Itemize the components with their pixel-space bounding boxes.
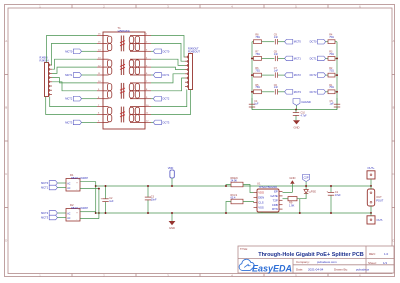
wire top rail xyxy=(96,185,371,187)
svg-text:AC: AC xyxy=(67,217,71,220)
wire D1 plus xyxy=(80,182,96,213)
resistor R4 75R xyxy=(326,41,328,43)
svg-text:AC: AC xyxy=(67,187,71,190)
bridge rectifier D2 DB107 xyxy=(66,209,80,222)
junction xyxy=(251,91,253,93)
svg-text:-: - xyxy=(76,219,77,222)
bridge rectifier D1 DB107 xyxy=(66,179,80,192)
U1 pin EP xyxy=(279,191,283,193)
wire T1 pin10 to J2 pin7 xyxy=(151,90,187,107)
svg-text:MCT0: MCT0 xyxy=(65,49,73,53)
junction xyxy=(171,212,173,214)
capacitor C1 47uF xyxy=(330,186,332,192)
junction xyxy=(330,212,332,214)
wire C to flag xyxy=(278,41,285,43)
net flag MCT0 xyxy=(73,49,81,54)
svg-text:GND: GND xyxy=(294,125,300,129)
net flag MCT3 xyxy=(73,120,81,125)
wire T1 center tap to MCT0 xyxy=(82,50,98,52)
wire J1 pin4 to T1 pin 10 xyxy=(52,78,97,83)
wire POUT bottom xyxy=(370,206,372,213)
svg-text:PSE: PSE xyxy=(311,190,316,194)
wire R to C xyxy=(262,41,275,43)
svg-text:TITLE:: TITLE: xyxy=(240,247,248,251)
transformer T1 xyxy=(103,32,145,129)
junction xyxy=(225,212,227,214)
wire D2 plus xyxy=(80,211,96,213)
svg-text:H5062NL: H5062NL xyxy=(118,29,131,33)
wire D2 minus xyxy=(80,218,99,220)
svg-text:DB107_C64097: DB107_C64097 xyxy=(71,177,89,180)
svg-text:10nF: 10nF xyxy=(151,198,157,201)
U1 pin GATE xyxy=(279,195,283,197)
svg-text:RTN: RTN xyxy=(272,207,278,211)
resistor R1 75R xyxy=(326,91,328,93)
wire RDEN to U1 xyxy=(243,185,254,193)
resistor R8 75R xyxy=(252,41,254,43)
svg-text:75Ω: 75Ω xyxy=(255,86,260,89)
svg-text:75Ω: 75Ω xyxy=(329,86,334,89)
svg-text:MCT1: MCT1 xyxy=(41,186,49,190)
U1 pin T2P xyxy=(279,199,283,201)
junction xyxy=(251,57,253,59)
svg-text:AC: AC xyxy=(67,183,71,186)
capacitor C3 10nF xyxy=(147,186,149,197)
svg-text:VSS: VSS xyxy=(258,206,264,210)
svg-text:POUT: POUT xyxy=(376,198,384,202)
svg-text:GND: GND xyxy=(169,226,175,230)
net flag C2P xyxy=(303,174,310,181)
wire POUT top xyxy=(370,186,372,189)
wire C to flag xyxy=(278,57,285,59)
transformer T1 pins xyxy=(97,35,103,37)
svg-text:1nF: 1nF xyxy=(274,70,279,73)
wire flag to D2 b xyxy=(57,217,66,219)
wire T1 center tap to MCT3 xyxy=(82,121,98,123)
junction xyxy=(336,74,338,76)
svg-text:AC: AC xyxy=(67,213,71,216)
wire D1 minus xyxy=(80,189,99,219)
U1 pin DEN xyxy=(254,197,258,199)
net flag CHGND xyxy=(293,99,300,106)
wire T1 right center tap to DCT0 xyxy=(151,50,153,52)
svg-text:DCT1: DCT1 xyxy=(310,56,317,60)
net flag MCT2 xyxy=(285,73,293,78)
svg-text:75Ω: 75Ω xyxy=(255,53,260,56)
svg-text:A: A xyxy=(5,39,7,43)
wire OUT+ stub xyxy=(370,179,372,186)
svg-text:B: B xyxy=(393,106,395,110)
resistor R6 75R xyxy=(252,74,254,76)
net flag DCT2 xyxy=(153,96,161,101)
wire T1 pin11 to J2 pin8 xyxy=(151,90,191,115)
title block xyxy=(238,246,394,273)
wire C2P stub xyxy=(305,182,307,190)
capacitor C2 1uF xyxy=(105,186,107,199)
wire R to C xyxy=(262,57,275,59)
svg-text:VDD: VDD xyxy=(168,166,174,170)
wire T1 pin5 to J2 pin4 xyxy=(151,67,185,70)
svg-text:Date:: Date: xyxy=(296,267,303,271)
svg-text:1nF: 1nF xyxy=(274,36,279,39)
wire T1 right center tap to DCT3 xyxy=(151,121,153,123)
wire flag to D2 a xyxy=(57,212,66,214)
svg-text:EasyEDA: EasyEDA xyxy=(252,263,292,273)
wire T1 right center tap to DCT1 xyxy=(151,74,153,76)
capacitor C9 1nF xyxy=(274,39,276,44)
wire rail to RDEN xyxy=(226,185,231,187)
resistor R7 75R xyxy=(252,57,254,59)
junction xyxy=(95,212,97,214)
wire termination bottom rail xyxy=(252,109,337,111)
connector J1 RJ45IN xyxy=(45,63,49,97)
IC U1 TPS2375 xyxy=(257,189,279,212)
svg-text:OUT+: OUT+ xyxy=(367,166,375,170)
wire D3 to R9 net xyxy=(300,193,306,198)
wire U1 VSS to rail xyxy=(261,212,263,213)
wire T1 center tap to MCT2 xyxy=(82,98,98,100)
wire T1 pin2 to J2 pin2 xyxy=(151,43,185,61)
wire flag to D1 a xyxy=(57,182,66,184)
wire termination left rail xyxy=(251,42,253,110)
svg-text:1uF: 1uF xyxy=(109,200,114,203)
resistor R3 75R xyxy=(326,57,328,59)
EasyEDA logo xyxy=(239,259,254,270)
wire R9 to rail xyxy=(297,199,300,213)
capacitor C7 1nF xyxy=(274,72,276,77)
svg-text:1nF: 1nF xyxy=(274,86,279,89)
svg-text:Company:: Company: xyxy=(296,260,310,264)
svg-text:CLS: CLS xyxy=(258,201,264,205)
wire R to C xyxy=(262,91,275,93)
svg-text:A: A xyxy=(393,39,395,43)
wire C to flag xyxy=(278,91,285,93)
svg-text:75Ω: 75Ω xyxy=(329,53,334,56)
svg-text:75Ω: 75Ω xyxy=(255,70,260,73)
wire J1 pin1 to T1 pin 15 xyxy=(52,43,98,65)
svg-text:MCT2: MCT2 xyxy=(65,97,73,101)
svg-text:2021-04-04: 2021-04-04 xyxy=(308,267,324,271)
connector POUT xyxy=(367,189,374,206)
net flag DCT1 xyxy=(317,56,325,61)
resistor R5 75R xyxy=(252,91,254,93)
wire T1 center tap to MCT1 xyxy=(82,74,98,76)
svg-text:MCT3: MCT3 xyxy=(65,120,73,124)
wire T1 pin1 to J2 pin1 xyxy=(151,36,185,58)
svg-text:GND: GND xyxy=(289,176,295,180)
ground GND termination xyxy=(293,120,300,124)
junction xyxy=(299,212,301,214)
svg-text:Through-Hole Gigabit PoE+ Spli: Through-Hole Gigabit PoE+ Splitter PCB xyxy=(258,252,364,258)
U1 pin RTN xyxy=(279,208,283,210)
svg-text:RJ45IN: RJ45IN xyxy=(40,59,49,63)
resistor R2 75R xyxy=(326,74,328,76)
junction xyxy=(225,185,227,187)
svg-text:OUT-: OUT- xyxy=(377,218,384,222)
svg-text:DCT2: DCT2 xyxy=(163,97,170,101)
svg-text:75Ω: 75Ω xyxy=(329,36,334,39)
svg-text:DCT0: DCT0 xyxy=(310,40,317,44)
svg-text:1uF: 1uF xyxy=(330,103,335,106)
svg-text:DB107_C64097: DB107_C64097 xyxy=(71,207,89,210)
svg-text:pubudeux: pubudeux xyxy=(356,267,370,271)
junction xyxy=(98,188,100,190)
capacitor C8 1nF xyxy=(274,56,276,61)
net flag MCT2 (D2 input a) xyxy=(49,211,57,216)
svg-text:DCT1: DCT1 xyxy=(163,73,170,77)
net flag MCT1 xyxy=(73,73,81,78)
wire termination right rail xyxy=(336,42,338,110)
wire J1 bottom a to T1 pin 7 xyxy=(50,97,97,107)
U1 pin VSS xyxy=(254,207,258,209)
wire RCLS to U1 xyxy=(243,202,254,203)
svg-text:CHGND: CHGND xyxy=(301,100,311,104)
net flag MCT3 xyxy=(285,90,293,95)
wire bottom rail xyxy=(96,212,371,214)
U1 pin VDD xyxy=(254,192,258,194)
svg-text:VDD: VDD xyxy=(258,191,264,195)
net flag DCT3 xyxy=(317,90,325,95)
svg-text:GATE: GATE xyxy=(270,194,278,198)
junction xyxy=(251,74,253,76)
svg-text:DEN: DEN xyxy=(258,196,264,200)
junction xyxy=(295,109,297,111)
capacitor C6 1nF xyxy=(274,89,276,94)
svg-text:MCT2: MCT2 xyxy=(41,211,49,215)
wire C to flag xyxy=(278,74,285,76)
svg-text:MCT1: MCT1 xyxy=(65,73,73,77)
wire U1 to GND xyxy=(283,191,293,193)
wire T1 pin8 to J2 pin6 xyxy=(151,78,185,91)
net flag DCT2 xyxy=(317,73,325,78)
svg-text:RJ45OUT: RJ45OUT xyxy=(188,49,200,53)
wire T1 right center tap to DCT2 xyxy=(151,98,153,100)
svg-text:DCT2: DCT2 xyxy=(310,73,317,77)
junction xyxy=(305,185,307,187)
svg-text:-: - xyxy=(76,189,77,192)
net flag DCT3 xyxy=(153,120,161,125)
svg-text:4.7uF: 4.7uF xyxy=(301,115,308,118)
svg-text:1uF: 1uF xyxy=(254,103,259,106)
svg-text:1nF: 1nF xyxy=(274,53,279,56)
capacitor C5 1uF xyxy=(336,98,338,104)
wire J1 pin2 to T1 pin 13 xyxy=(52,59,97,69)
resistor R9 1.9k xyxy=(288,197,297,201)
wire OUT- stub xyxy=(370,213,372,216)
U1 pin CDB xyxy=(279,204,283,206)
svg-text:75Ω: 75Ω xyxy=(329,70,334,73)
svg-text:EP: EP xyxy=(274,190,278,194)
wire J1 pin3 to T1 pin 12 xyxy=(52,67,97,73)
svg-text:75Ω: 75Ω xyxy=(255,36,260,39)
capacitor C10 4.7uF xyxy=(295,110,297,113)
wire J1 bottom b to T1 pin 6 xyxy=(46,97,97,115)
svg-text:MCT3: MCT3 xyxy=(294,90,302,94)
net flag MCT0 (D1 input a) xyxy=(49,181,57,186)
net flag MCT2 xyxy=(73,96,81,101)
junction xyxy=(98,212,100,214)
wire R to C xyxy=(262,74,275,76)
svg-text:C2P: C2P xyxy=(304,176,309,180)
junction xyxy=(105,212,107,214)
net flag MCT1 xyxy=(285,56,293,61)
svg-text:MCT2: MCT2 xyxy=(294,73,302,77)
junction xyxy=(95,185,97,187)
svg-text:DCT3: DCT3 xyxy=(163,120,170,124)
junction xyxy=(147,212,149,214)
wire RCLS to rail xyxy=(226,202,231,214)
junction xyxy=(147,185,149,187)
svg-text:T2P: T2P xyxy=(273,198,278,202)
wire J1 top to T1 pin 16 xyxy=(47,36,98,63)
junction xyxy=(171,185,173,187)
svg-text:MCT0: MCT0 xyxy=(41,181,49,185)
svg-text:MCT0: MCT0 xyxy=(294,40,302,44)
U1 pin CLS xyxy=(254,202,258,204)
net flag DCT1 xyxy=(153,73,161,78)
svg-text:CDB: CDB xyxy=(272,203,278,207)
capacitor C4 1uF xyxy=(251,98,253,104)
junction xyxy=(370,212,372,214)
junction xyxy=(370,185,372,187)
junction xyxy=(336,57,338,59)
svg-text:Sheet:: Sheet: xyxy=(368,261,377,265)
wire CHGND stub xyxy=(296,105,298,109)
svg-text:TPS2375DGNR: TPS2375DGNR xyxy=(259,185,278,189)
svg-text:MCT3: MCT3 xyxy=(41,216,49,220)
net flag DCT0 xyxy=(317,39,325,44)
svg-text:DCT0: DCT0 xyxy=(163,49,170,53)
net flag MCT1 (D1 input b) xyxy=(49,185,57,190)
net flag DCT0 xyxy=(153,49,161,54)
wire U1 to R9 xyxy=(283,198,289,200)
svg-text:REV:: REV: xyxy=(369,252,376,256)
svg-text:1.9K: 1.9K xyxy=(289,203,295,207)
svg-text:47uF: 47uF xyxy=(335,194,341,197)
diode D3 PSE xyxy=(304,190,308,194)
svg-text:DCT3: DCT3 xyxy=(310,90,317,94)
wire T1 pin7 to J2 pin5 xyxy=(151,74,185,83)
wire T1 pin4 to J2 pin3 xyxy=(151,59,185,65)
net flag MCT0 xyxy=(285,39,293,44)
wire J1 pin5 to T1 pin 9 xyxy=(52,82,97,91)
net flag MCT3 (D2 input b) xyxy=(49,215,57,220)
wire flag to D1 b xyxy=(57,187,66,189)
ground GND rail xyxy=(171,213,173,221)
junction xyxy=(105,185,107,187)
junction xyxy=(336,91,338,93)
connector J2 RJ45OUT xyxy=(189,54,193,90)
svg-text:MCT1: MCT1 xyxy=(294,56,302,60)
svg-text:1/1: 1/1 xyxy=(383,261,388,265)
svg-text:U1: U1 xyxy=(257,182,261,186)
svg-text:B: B xyxy=(5,106,7,110)
svg-text:1.0: 1.0 xyxy=(384,252,389,256)
svg-text:Drawn By:: Drawn By: xyxy=(334,267,348,271)
junction xyxy=(330,185,332,187)
svg-text:pubudeux.com: pubudeux.com xyxy=(317,260,337,264)
connector OUT- xyxy=(367,216,375,224)
